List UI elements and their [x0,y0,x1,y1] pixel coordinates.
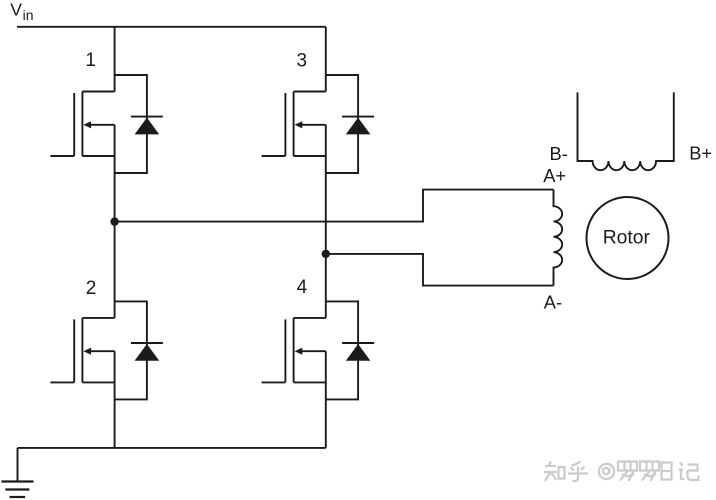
svg-text:B-: B- [550,143,568,164]
svg-text:3: 3 [297,50,308,71]
svg-text:1: 1 [85,50,96,71]
svg-text:4: 4 [297,277,308,298]
svg-text:A+: A+ [543,165,566,186]
svg-text:2: 2 [86,278,97,299]
svg-text:B+: B+ [689,143,712,164]
svg-text:V: V [10,0,22,20]
svg-text:Rotor: Rotor [603,227,651,248]
svg-text:in: in [23,7,34,23]
svg-text:A-: A- [544,292,562,313]
